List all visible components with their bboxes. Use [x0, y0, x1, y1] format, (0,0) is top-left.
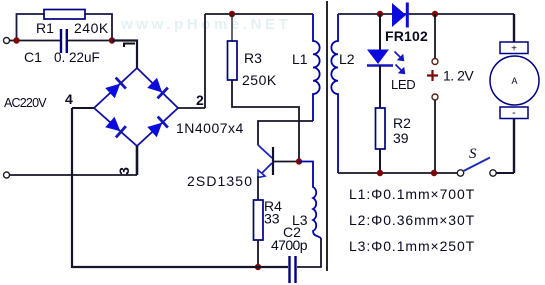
- svg-text:R1: R1: [36, 20, 54, 36]
- resistor R3: [228, 41, 238, 80]
- motor M terminal minus box: [500, 107, 528, 119]
- inductor L3: [299, 162, 321, 239]
- wire C1 to node B: [68, 40, 112, 42]
- svg-text:L3: L3: [292, 212, 308, 228]
- svg-text:C1: C1: [24, 49, 42, 65]
- wire motor top vertical: [513, 14, 515, 42]
- junction R2 bottom: [377, 170, 383, 176]
- wire R3 top lead: [231, 14, 233, 41]
- inductor L1: [313, 14, 320, 121]
- svg-text:2SD1350: 2SD1350: [187, 173, 253, 189]
- wire R1 branch left vertical: [17, 14, 45, 41]
- wire R1 branch right vertical: [85, 14, 112, 41]
- svg-text:S: S: [469, 146, 477, 162]
- wire terminal1 to node A: [10, 40, 18, 42]
- wire switch to motor: [496, 172, 514, 174]
- wire R2 bottom lead: [379, 149, 381, 173]
- wire AC line2 to bridge bottom: [10, 174, 138, 176]
- node 1 mark: [124, 44, 135, 48]
- diode D2 upper-right: [147, 77, 168, 98]
- bridge edge 4-1: [94, 68, 137, 108]
- motor M body: [490, 56, 539, 105]
- motor M terminal plus box: [500, 42, 528, 54]
- resistor R1: [44, 10, 85, 20]
- svg-text:240K: 240K: [74, 20, 109, 36]
- svg-text:L3:Φ0.1mm×250T: L3:Φ0.1mm×250T: [349, 238, 475, 254]
- wire LED branch top: [379, 14, 381, 50]
- wire node A to C1: [17, 40, 60, 42]
- wire node B to bridge top: [112, 41, 137, 69]
- diode D1 upper-left: [105, 78, 126, 99]
- svg-text:+: +: [511, 44, 517, 55]
- terminal AC line 2: [4, 172, 10, 178]
- wire bridge left vertex to left rail: [72, 107, 94, 109]
- resistor R2: [376, 108, 386, 149]
- wire emitter down: [257, 176, 259, 200]
- wire bottom rail left: [72, 266, 288, 268]
- junction node A: [13, 37, 19, 43]
- switch S blade: [464, 158, 491, 172]
- wire battery top lead: [434, 14, 436, 59]
- junction base node: [296, 158, 302, 164]
- wire left rail vertical: [71, 108, 73, 268]
- transformer core: [326, 1, 328, 271]
- svg-text:1. 2V: 1. 2V: [443, 68, 474, 84]
- battery terminal bottom: [432, 94, 438, 100]
- LED D5: [367, 50, 393, 66]
- svg-text:-: -: [512, 107, 516, 119]
- switch S contact left: [457, 170, 463, 176]
- svg-text:4: 4: [65, 91, 73, 107]
- svg-text:39: 39: [393, 130, 409, 146]
- bridge edge 3-2: [137, 108, 178, 146]
- wire bridge right vertex to rail: [178, 107, 205, 109]
- diode D4 lower-right: [147, 117, 168, 138]
- resistor R4: [254, 200, 264, 240]
- junction node B: [109, 37, 115, 43]
- svg-text:L2: L2: [339, 51, 355, 67]
- svg-text:FR102: FR102: [385, 28, 428, 44]
- wire R4 bottom lead: [257, 240, 259, 267]
- svg-text:LED: LED: [391, 77, 415, 92]
- diode FR102: [392, 3, 409, 28]
- svg-text:2: 2: [196, 92, 204, 108]
- wire top rail right: [338, 13, 514, 15]
- svg-text:3: 3: [116, 167, 132, 175]
- bridge edge 1-2: [137, 68, 178, 108]
- battery terminal top: [432, 59, 438, 65]
- junction battery bottom: [431, 170, 437, 176]
- junction emitter rail: [255, 264, 261, 270]
- capacitor C1: [60, 29, 62, 53]
- wire LED to R2: [379, 65, 381, 108]
- wire C2 to L3 bottom: [297, 238, 321, 267]
- wire motor bottom vertical: [513, 119, 515, 174]
- svg-text:250K: 250K: [242, 72, 277, 88]
- wire top rail: [205, 13, 313, 15]
- wire R3 bottom to base node: [232, 80, 299, 162]
- svg-text:R3: R3: [244, 50, 262, 66]
- capacitor C2: [288, 256, 290, 283]
- LED arrows: [395, 52, 405, 74]
- wire L1 bottom to collector: [258, 121, 313, 145]
- wire bottom rail right: [338, 172, 457, 174]
- wire battery bottom lead: [434, 100, 436, 173]
- switch S contact right: [490, 170, 496, 176]
- wire right rail up: [204, 14, 206, 108]
- svg-text:4700p: 4700p: [271, 237, 308, 253]
- transistor Q1 2SD1350: [258, 145, 299, 178]
- inductor L2: [331, 14, 338, 173]
- junction R3 top: [229, 11, 235, 17]
- diode D3 lower-left: [105, 116, 126, 137]
- svg-text:33: 33: [264, 211, 280, 227]
- svg-text:A: A: [511, 76, 517, 86]
- junction battery top: [432, 11, 438, 17]
- svg-text:0. 22uF: 0. 22uF: [54, 50, 100, 65]
- svg-text:R2: R2: [393, 115, 411, 131]
- terminal AC line 1: [4, 38, 10, 44]
- svg-text:AC220V: AC220V: [4, 96, 47, 110]
- svg-text:1N4007x4: 1N4007x4: [176, 120, 244, 136]
- svg-text:L1:Φ0.1mm×700T: L1:Φ0.1mm×700T: [349, 186, 475, 202]
- svg-text:L1: L1: [292, 51, 308, 67]
- battery plus mark: [427, 70, 438, 81]
- svg-text:L2:Φ0.36mm×30T: L2:Φ0.36mm×30T: [349, 212, 475, 228]
- junction LED top: [377, 11, 383, 17]
- wire bridge bottom vertical: [136, 146, 139, 175]
- bridge edge 4-3: [94, 108, 137, 146]
